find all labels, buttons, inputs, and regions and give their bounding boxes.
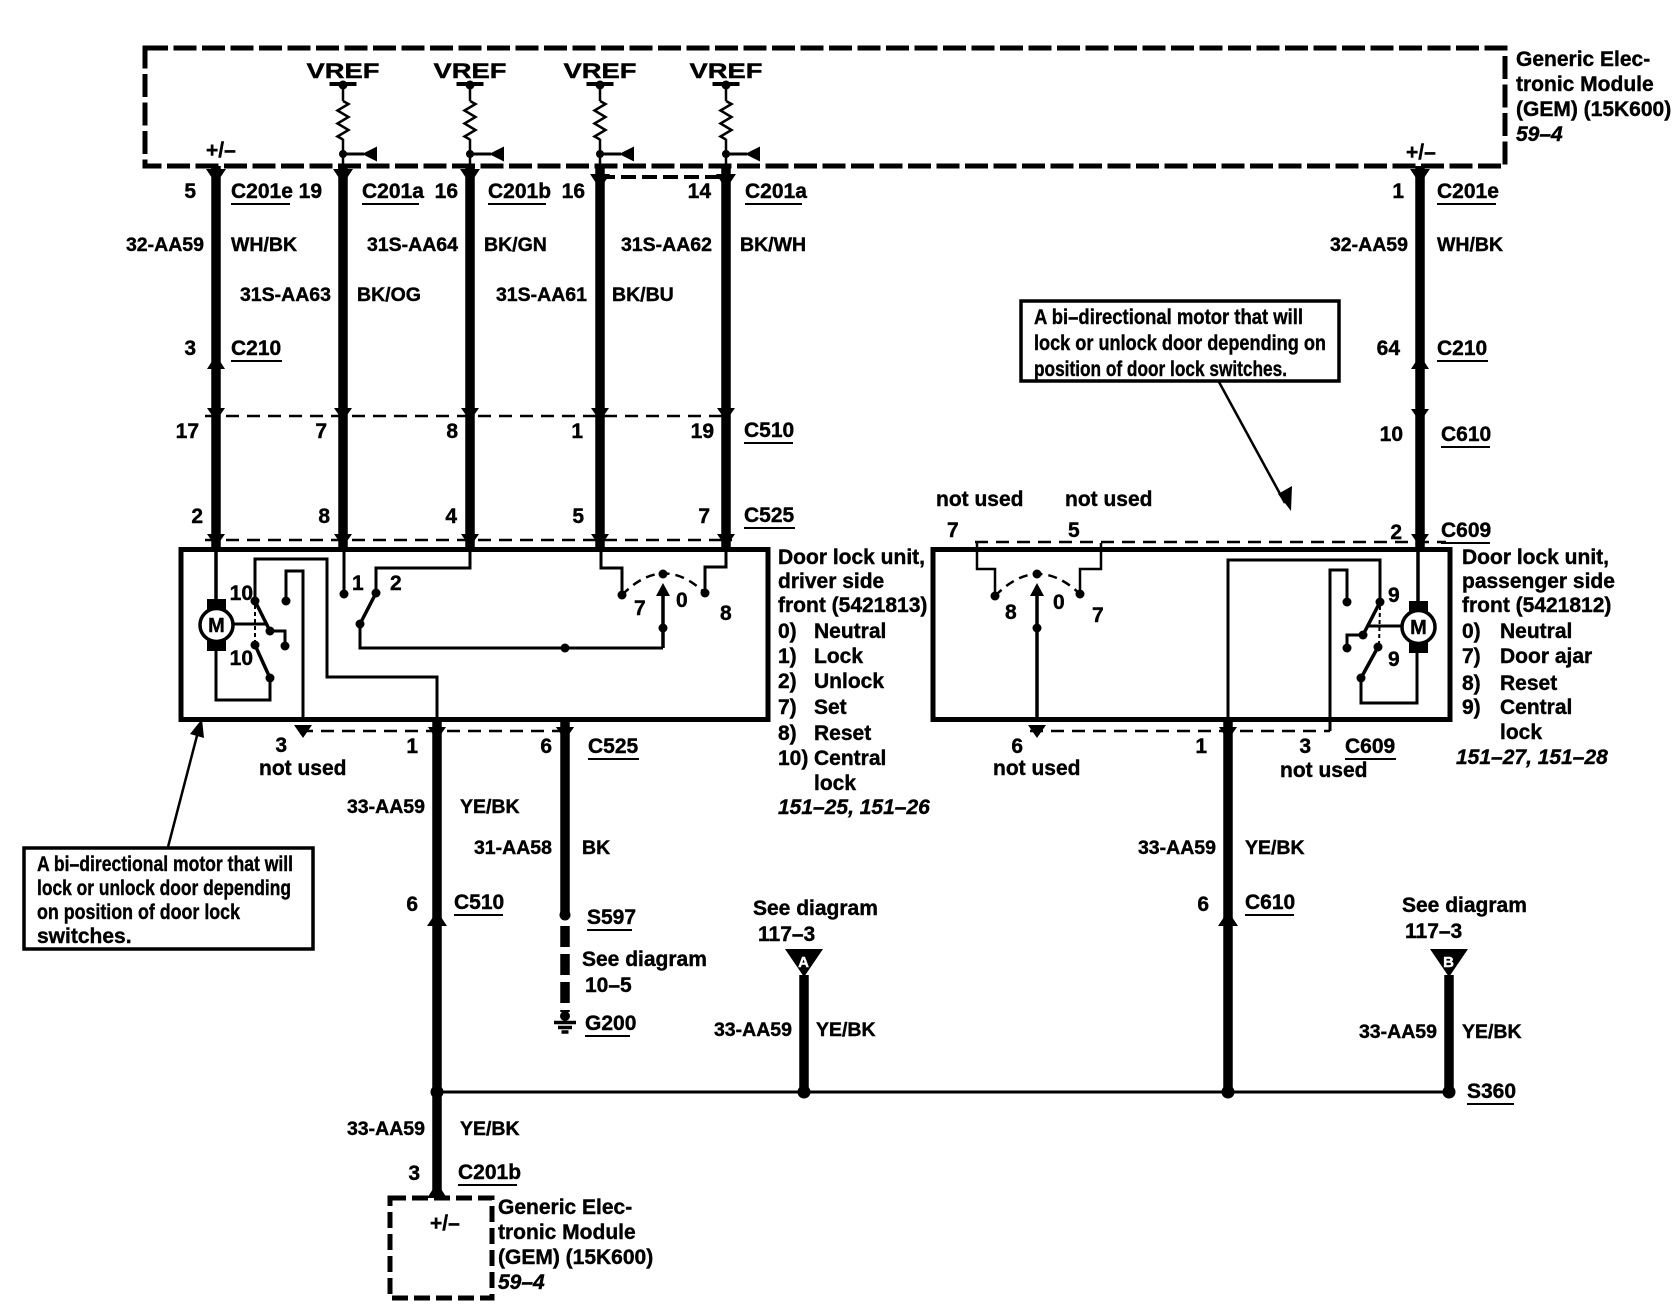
svg-text:M: M <box>208 615 225 637</box>
wire 32-AA59 WH/BK right (GEM pin 1 to passenger unit pin 2) <box>1415 166 1425 550</box>
svg-text:C210: C210 <box>1437 337 1487 360</box>
svg-text:16: 16 <box>435 180 458 203</box>
svg-text:BK/WH: BK/WH <box>740 234 806 256</box>
svg-text:C525: C525 <box>744 504 795 527</box>
svg-text:7): 7) <box>778 696 797 719</box>
svg-text:64: 64 <box>1377 337 1401 360</box>
connector C609 dashed line <box>975 541 1446 544</box>
svg-text:14: 14 <box>688 180 712 203</box>
junction A wire <box>798 1086 811 1099</box>
splice S360 <box>1443 1086 1456 1099</box>
wire splice rail <box>437 1091 1449 1094</box>
svg-text:C609: C609 <box>1441 519 1491 542</box>
svg-text:8: 8 <box>446 420 458 443</box>
switch 9 upper contact arm <box>1376 598 1385 607</box>
svg-text:8): 8) <box>1462 672 1481 695</box>
svg-text:C609: C609 <box>1345 735 1395 758</box>
svg-text:not used: not used <box>936 488 1024 511</box>
svg-text:on position of door lock: on position of door lock <box>37 901 240 924</box>
svg-text:A bi–directional motor that wi: A bi–directional motor that will <box>37 853 293 876</box>
svg-text:C610: C610 <box>1441 423 1491 446</box>
svg-text:C210: C210 <box>231 337 281 360</box>
wire motor left lead <box>1368 625 1402 628</box>
svg-text:not used: not used <box>993 757 1081 780</box>
switch 9 lower contact arm <box>1374 643 1383 652</box>
svg-text:32-AA59: 32-AA59 <box>1330 234 1408 256</box>
svg-text:BK/OG: BK/OG <box>357 284 421 306</box>
svg-text:7: 7 <box>698 505 710 528</box>
wire pin 4 rail to contact 2 <box>376 552 470 592</box>
module GEM (15K600) top dashed box <box>145 48 1505 166</box>
svg-text:Reset: Reset <box>814 722 871 745</box>
svg-text:front (5421812): front (5421812) <box>1462 594 1611 617</box>
svg-text:YE/BK: YE/BK <box>816 1019 876 1041</box>
svg-text:6: 6 <box>1197 893 1209 916</box>
note box bi-directional motor (top right) <box>1021 301 1339 511</box>
svg-text:10: 10 <box>230 647 253 670</box>
junction passenger wire <box>1222 1086 1235 1099</box>
wire 32-AA59 WH/BK left (GEM pin 5 to driver unit pin 2) <box>211 166 221 549</box>
svg-text:151–25, 151–26: 151–25, 151–26 <box>778 796 930 819</box>
svg-text:3: 3 <box>408 1162 420 1185</box>
junction pin 6 tap <box>561 644 570 653</box>
svg-text:Generic Elec-: Generic Elec- <box>1516 48 1650 71</box>
switch 7/0/8 wiper arrow <box>656 583 670 596</box>
box door lock unit driver side front (5421813) <box>181 550 768 720</box>
svg-text:9: 9 <box>1388 584 1400 607</box>
svg-text:0: 0 <box>1053 591 1065 614</box>
svg-text:3: 3 <box>1299 735 1311 758</box>
svg-text:8): 8) <box>778 722 797 745</box>
svg-text:not used: not used <box>1280 759 1368 782</box>
svg-text:10: 10 <box>1380 423 1403 446</box>
wire pin2 to motor top <box>214 552 218 600</box>
svg-text:BK/BU: BK/BU <box>612 284 674 306</box>
pin 6 not used arrow <box>1028 725 1046 738</box>
svg-text:S360: S360 <box>1467 1080 1516 1103</box>
svg-text:passenger side: passenger side <box>1462 570 1615 593</box>
wire top rail from switch 10 pivot to pin 1 <box>255 559 437 722</box>
note box bi-directional motor (left) <box>24 719 313 949</box>
svg-text:C525: C525 <box>588 735 639 758</box>
svg-text:33-AA59: 33-AA59 <box>347 1118 425 1140</box>
svg-text:0): 0) <box>1462 620 1481 643</box>
svg-text:2: 2 <box>1390 521 1402 544</box>
svg-text:5: 5 <box>572 505 584 528</box>
switch 8/0/7 rotary arc <box>995 574 1080 596</box>
svg-text:33-AA59: 33-AA59 <box>1359 1021 1437 1043</box>
svg-text:lock: lock <box>1500 721 1542 744</box>
svg-text:7: 7 <box>947 519 959 542</box>
svg-text:YE/BK: YE/BK <box>460 1118 520 1140</box>
svg-text:B: B <box>1443 954 1454 971</box>
svg-text:2): 2) <box>778 670 797 693</box>
svg-text:1: 1 <box>571 420 583 443</box>
svg-text:1: 1 <box>352 572 364 595</box>
svg-text:not used: not used <box>1065 488 1153 511</box>
connector C609 bottom dashed line <box>1030 730 1330 733</box>
wire pin 7 stub to contact 8 <box>977 543 995 595</box>
label door lock unit driver column <box>778 546 930 819</box>
svg-text:33-AA59: 33-AA59 <box>1138 837 1216 859</box>
svg-text:4: 4 <box>445 505 457 528</box>
wire 33-AA59 YE/BK from B to splice S360 <box>1444 975 1454 1090</box>
svg-text:Door ajar: Door ajar <box>1500 645 1592 668</box>
svg-text:59–4: 59–4 <box>498 1271 545 1294</box>
module GEM (15K600) bottom dashed box <box>390 1198 492 1298</box>
svg-text:front (5421813): front (5421813) <box>778 594 927 617</box>
wire 31-AA58 BK driver pin6 to ground <box>560 722 570 916</box>
svg-text:BK: BK <box>582 837 610 859</box>
svg-text:C510: C510 <box>454 891 504 914</box>
svg-text:31S-AA63: 31S-AA63 <box>240 284 331 306</box>
pin 3 not used arrow <box>294 725 312 738</box>
svg-text:6: 6 <box>540 735 552 758</box>
svg-text:1: 1 <box>406 735 418 758</box>
svg-text:Reset: Reset <box>1500 672 1557 695</box>
svg-text:59–4: 59–4 <box>1516 123 1563 146</box>
svg-text:31S-AA61: 31S-AA61 <box>496 284 587 306</box>
svg-text:1: 1 <box>1195 735 1207 758</box>
wire from arm tip to dangling contact <box>1347 635 1363 647</box>
label GEM top-right text <box>1516 48 1671 146</box>
connector segment between wire4 and wire5 <box>600 175 727 179</box>
svg-text:+/–: +/– <box>430 1212 460 1235</box>
resistor VREF pull-up on wire 3 <box>434 60 507 166</box>
svg-text:(GEM) (15K600): (GEM) (15K600) <box>1516 98 1671 121</box>
wire arm to common rail <box>360 624 663 648</box>
svg-text:31-AA58: 31-AA58 <box>474 837 552 859</box>
svg-text:C201e: C201e <box>231 180 293 203</box>
svg-text:C201b: C201b <box>488 180 551 203</box>
svg-text:9: 9 <box>1388 648 1400 671</box>
labels wire6 pins <box>1330 180 1503 544</box>
connector 3 C201b in-line arrow <box>427 1183 447 1198</box>
link mechanical between switch 10 arms <box>254 605 256 644</box>
svg-text:33-AA59: 33-AA59 <box>714 1019 792 1041</box>
svg-text:10: 10 <box>230 582 253 605</box>
svg-text:Neutral: Neutral <box>814 620 886 643</box>
svg-text:+/–: +/– <box>1406 141 1436 164</box>
label GEM bottom text <box>498 1196 653 1294</box>
labels wire2 pins <box>240 180 424 528</box>
svg-text:Neutral: Neutral <box>1500 620 1572 643</box>
svg-text:M: M <box>1410 617 1427 639</box>
svg-text:Lock: Lock <box>814 645 863 668</box>
svg-text:10): 10) <box>778 747 808 770</box>
svg-text:8: 8 <box>1005 601 1017 624</box>
wire pin 3 not-used contact <box>282 597 291 606</box>
switch 10 lower contact arm <box>251 641 260 650</box>
svg-text:VREF: VREF <box>307 60 380 83</box>
wire 33-AA59 YE/BK driver pin1 down to C201b <box>432 722 442 1198</box>
wire 31S-AA64 BK/GN (GEM pin 16 to driver unit pin 4) <box>465 166 475 549</box>
svg-text:(GEM) (15K600): (GEM) (15K600) <box>498 1246 653 1269</box>
svg-text:5: 5 <box>1068 519 1080 542</box>
wire dashed to ground <box>560 926 570 1012</box>
svg-text:5: 5 <box>184 180 196 203</box>
connector C510 dashed line <box>205 415 730 418</box>
svg-text:See diagram: See diagram <box>753 897 878 920</box>
svg-text:0): 0) <box>778 620 797 643</box>
svg-text:31S-AA64: 31S-AA64 <box>367 234 458 256</box>
wire pin 5 stub to contact 7 <box>1080 543 1101 593</box>
svg-text:1: 1 <box>1392 180 1404 203</box>
svg-text:1): 1) <box>778 645 797 668</box>
wire 31S-AA61 BK/BU (GEM pin 16 to driver unit pin 5) <box>595 166 605 549</box>
link mechanical between switch 9 arms <box>1379 606 1380 646</box>
junction driver wire <box>431 1086 444 1099</box>
svg-text:6: 6 <box>406 893 418 916</box>
switch 10 upper central-lock contact arm <box>251 597 260 606</box>
svg-text:117–3: 117–3 <box>1405 920 1462 943</box>
svg-text:YE/BK: YE/BK <box>1462 1021 1522 1043</box>
svg-text:switches.: switches. <box>37 925 132 948</box>
wire pin 3 not-used contact <box>1343 598 1352 607</box>
svg-text:33-AA59: 33-AA59 <box>347 796 425 818</box>
svg-text:G200: G200 <box>585 1012 636 1035</box>
resistor VREF pull-up on wire 2 <box>307 60 380 166</box>
svg-text:tronic Module: tronic Module <box>1516 73 1654 96</box>
switch 1/2 lock-unlock arm <box>360 593 376 624</box>
ground G200 <box>554 1011 576 1032</box>
pin 1 arrow <box>428 727 446 740</box>
svg-text:C201e: C201e <box>1437 180 1499 203</box>
labels wire3 pins <box>367 180 551 528</box>
wire 33-AA59 YE/BK passenger pin1 down <box>1223 722 1233 1092</box>
svg-text:6: 6 <box>1011 735 1023 758</box>
wire pin 1 rail up and over to switch 9 pivot <box>1228 560 1380 722</box>
svg-text:151–27, 151–28: 151–27, 151–28 <box>1456 746 1608 769</box>
svg-text:not used: not used <box>259 757 347 780</box>
svg-text:117–3: 117–3 <box>758 923 815 946</box>
wire 33-AA59 YE/BK from A to splice rail <box>799 975 809 1092</box>
svg-text:lock: lock <box>814 772 856 795</box>
wire 31S-AA62 BK/WH (GEM pin 14 to driver unit pin 7) <box>721 166 731 549</box>
svg-text:Central: Central <box>1500 696 1572 719</box>
svg-text:C610: C610 <box>1245 891 1295 914</box>
wire pin 7 stub to contact 8 <box>705 552 726 592</box>
svg-text:A bi–directional motor that wi: A bi–directional motor that will <box>1034 306 1303 329</box>
pin 6 arrow <box>556 727 574 740</box>
connector 6 C610 in-line arrow <box>1218 911 1238 926</box>
svg-text:driver side: driver side <box>778 570 884 593</box>
wire pin 5 stub to contact 7 <box>601 552 622 594</box>
svg-text:lock or unlock door depending: lock or unlock door depending on <box>1034 332 1326 355</box>
svg-text:See diagram: See diagram <box>582 948 707 971</box>
svg-text:position of door lock switches: position of door lock switches. <box>1034 358 1287 381</box>
connector C525 bottom dashed line <box>300 730 570 733</box>
svg-text:Door lock unit,: Door lock unit, <box>778 546 925 569</box>
svg-text:16: 16 <box>562 180 585 203</box>
arrow from note to C609 <box>1219 382 1285 503</box>
svg-text:C510: C510 <box>744 419 794 442</box>
svg-text:Generic Elec-: Generic Elec- <box>498 1196 632 1219</box>
svg-text:Unlock: Unlock <box>814 670 884 693</box>
svg-text:C201a: C201a <box>362 180 424 203</box>
motor M1 driver door lock motor <box>200 599 233 651</box>
svg-text:7: 7 <box>634 597 646 620</box>
svg-text:Set: Set <box>814 696 847 719</box>
svg-text:31S-AA62: 31S-AA62 <box>621 234 712 256</box>
resistor VREF pull-up on wire 4 <box>564 60 637 166</box>
wire motor bottom loop <box>216 651 270 700</box>
svg-text:17: 17 <box>176 420 199 443</box>
svg-text:YE/BK: YE/BK <box>1245 837 1305 859</box>
svg-text:Central: Central <box>814 747 886 770</box>
wire pin 8 stub to contact 1 <box>343 552 346 593</box>
svg-text:YE/BK: YE/BK <box>460 796 520 818</box>
svg-text:S597: S597 <box>587 906 636 929</box>
svg-text:3: 3 <box>184 337 196 360</box>
svg-text:19: 19 <box>299 180 322 203</box>
connector C525 dashed line <box>205 539 732 542</box>
label door lock unit passenger column <box>1456 546 1615 769</box>
svg-text:19: 19 <box>691 420 714 443</box>
svg-text:WH/BK: WH/BK <box>1437 234 1503 256</box>
labels wire4 pins <box>496 180 674 528</box>
labels wire5 pins <box>621 180 807 528</box>
splice S597 <box>560 910 571 921</box>
svg-text:WH/BK: WH/BK <box>231 234 297 256</box>
svg-text:8: 8 <box>720 602 732 625</box>
svg-text:7: 7 <box>1092 604 1104 627</box>
wire 31S-AA63 BK/OG (GEM pin 19 to driver unit pin 8) <box>338 166 348 549</box>
resistor VREF pull-up on wire 5 <box>690 60 763 166</box>
svg-text:10–5: 10–5 <box>585 974 632 997</box>
svg-text:2: 2 <box>390 572 402 595</box>
labels wire1 pins <box>126 180 297 528</box>
svg-text:7): 7) <box>1462 645 1481 668</box>
svg-text:2: 2 <box>191 505 203 528</box>
switch 7/0/8 rotary arc <box>622 573 705 595</box>
arrow from note to driver box <box>168 728 199 847</box>
wire motor right lead <box>233 623 266 626</box>
connector 6 C510 in-line arrow <box>427 911 447 926</box>
svg-text:C201b: C201b <box>458 1161 521 1184</box>
svg-text:C201a: C201a <box>745 180 807 203</box>
svg-text:+/–: +/– <box>206 139 236 162</box>
svg-text:3: 3 <box>275 734 287 757</box>
pin 1 arrow <box>1219 727 1237 740</box>
svg-text:lock or unlock door depending: lock or unlock door depending <box>37 877 291 900</box>
svg-text:Door lock unit,: Door lock unit, <box>1462 546 1609 569</box>
box door lock unit passenger side front (5421812) <box>933 550 1450 720</box>
svg-text:32-AA59: 32-AA59 <box>126 234 204 256</box>
svg-text:7: 7 <box>315 420 327 443</box>
motor M2 passenger door lock motor <box>1402 601 1435 653</box>
svg-text:See diagram: See diagram <box>1402 894 1527 917</box>
switch 8/0/7 wiper arrow to pin 6 <box>1030 583 1044 596</box>
svg-text:9): 9) <box>1462 696 1481 719</box>
svg-text:8: 8 <box>318 505 330 528</box>
svg-text:tronic Module: tronic Module <box>498 1221 636 1244</box>
wire from upper arm tip to lower contact <box>270 631 285 645</box>
svg-text:A: A <box>798 954 809 971</box>
wire lower arm to motor bottom loop <box>1361 652 1417 703</box>
wire pin2 to motor top <box>1416 552 1420 602</box>
svg-text:0: 0 <box>676 589 688 612</box>
svg-text:BK/GN: BK/GN <box>484 234 547 256</box>
